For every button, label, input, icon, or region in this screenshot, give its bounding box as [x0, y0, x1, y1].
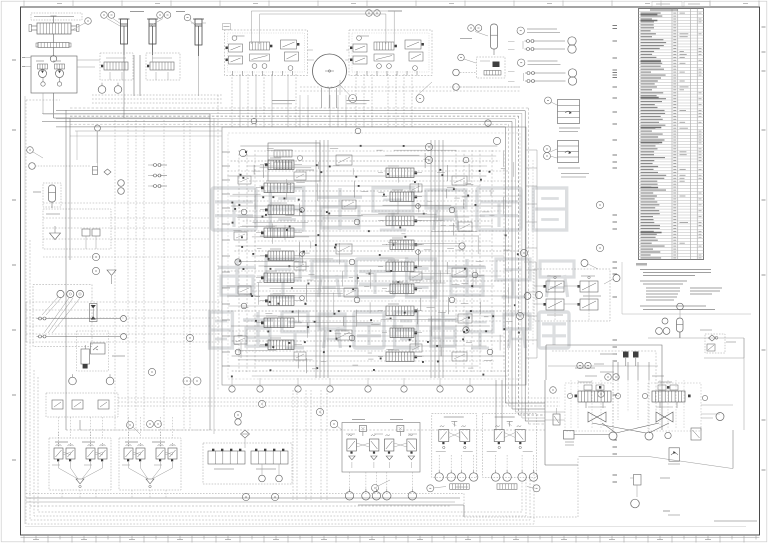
travel section boundary	[545, 366, 733, 469]
parts table header	[650, 9, 678, 11]
valve bank VB2	[349, 30, 432, 76]
ref balloons 2 3	[101, 12, 144, 27]
coupler group QC1	[517, 27, 576, 53]
pilot section sub-block	[268, 143, 320, 181]
gauges G4 G5	[453, 69, 520, 90]
wire cylinder drains	[124, 55, 199, 96]
pump solenoids	[600, 352, 639, 367]
drawing number text	[663, 511, 757, 521]
right margin zone letters	[762, 27, 766, 470]
valve V2 selector	[36, 34, 71, 56]
travel valve banks	[567, 382, 707, 408]
wire pump leaders	[42, 297, 80, 333]
ref balloons travel	[550, 374, 664, 398]
label box pilot unit	[31, 13, 82, 20]
valve bank VB1	[225, 30, 308, 76]
accumulator ACC1	[491, 24, 498, 55]
watermark row 3	[210, 312, 569, 348]
hose connectors	[427, 484, 540, 492]
reducing valve RV2	[544, 141, 590, 178]
wire pump outlet	[43, 60, 210, 118]
accumulator ACC3	[656, 303, 684, 338]
parts table row lines	[639, 12, 704, 257]
pedal valve cluster PD1	[432, 414, 477, 478]
wire bank links	[222, 11, 394, 108]
pilot valve cluster PC1	[49, 432, 111, 490]
wire coupler stubs	[508, 42, 515, 82]
tank symbol T1	[107, 270, 116, 284]
valve V6 shuttle	[90, 304, 98, 322]
travel crossover junctions	[592, 423, 671, 440]
filter F1	[93, 131, 112, 175]
ref balloons SV1	[536, 260, 621, 299]
auxiliary valve boxes	[234, 155, 472, 361]
pilot joystick PJ1	[342, 420, 420, 473]
drain filter unit	[630, 475, 670, 508]
ref balloon 1	[72, 18, 91, 30]
ref balloons 15 16	[183, 377, 201, 385]
valve bottom ports	[229, 378, 473, 392]
junction node A	[524, 262, 536, 300]
gauges G2 G3	[98, 83, 122, 94]
main control valve boundary	[222, 127, 526, 385]
bus left pilot lines	[26, 302, 222, 342]
ref balloons 4 5 6	[150, 12, 196, 27]
pump unit labels	[575, 368, 614, 372]
valve V1 hand control	[29, 16, 79, 34]
travel motors M1 M2	[588, 407, 673, 422]
bus tank return lines	[26, 498, 464, 517]
bus to pilot clusters	[118, 380, 560, 500]
wire bank to valve block	[232, 74, 412, 127]
pilot bus lines left	[43, 120, 210, 430]
spool column right	[378, 166, 422, 362]
gauge row G11	[345, 472, 416, 500]
coupler group QC2	[518, 59, 577, 85]
relief valve RV3	[553, 408, 560, 425]
coupler set QC3	[148, 164, 167, 188]
pilot boundary nest	[25, 96, 746, 527]
wire mid-left links	[70, 131, 222, 163]
valve west port stubs	[222, 152, 230, 366]
bus top-left to valve	[66, 95, 222, 430]
valve V4 holding	[146, 53, 180, 80]
pedal valve cluster PD2	[483, 414, 537, 478]
coupler set QC4	[37, 316, 127, 340]
ref balloons travel top	[577, 362, 604, 368]
ref balloons 9 10	[340, 82, 432, 103]
watermark row 2	[218, 259, 574, 297]
gauge G1	[50, 56, 56, 62]
boundary step lines	[26, 457, 578, 517]
solenoid manifold SM1	[203, 443, 292, 484]
pump unit boundary	[546, 345, 662, 430]
pilot valve cluster PC2	[119, 432, 181, 490]
ref balloons misc	[92, 143, 603, 500]
gauge rows G12 G13	[435, 455, 538, 481]
ref balloon 20	[372, 480, 391, 492]
wire right edge drop	[733, 338, 744, 468]
accumulator ACC2	[33, 183, 61, 208]
motor box M3	[564, 431, 610, 446]
filter F2	[235, 419, 250, 448]
wire block east stubs	[526, 150, 537, 358]
check filter circuit	[648, 330, 744, 358]
valve internal galleries	[239, 140, 504, 378]
watermark row 1	[212, 188, 567, 230]
parts table frame	[639, 9, 704, 260]
pilot filter unit	[43, 209, 111, 249]
revision blocks	[652, 2, 710, 7]
gauges G7 G8	[118, 180, 125, 195]
rotary joint J1	[313, 54, 347, 88]
bus top dashed pair	[300, 80, 520, 95]
ref balloon 14	[27, 147, 43, 158]
travel feed lines	[545, 362, 733, 432]
bus right vertical bundle	[42, 108, 545, 424]
pump group boundary	[33, 285, 92, 347]
notes text block	[622, 262, 751, 314]
port label column	[613, 26, 618, 483]
cylinder C3	[191, 19, 206, 56]
valve V3 holding	[100, 53, 133, 80]
scale mark	[455, 486, 468, 488]
valve V5 solenoid	[477, 57, 506, 78]
bus spine lines	[66, 55, 545, 434]
swing brake valve	[668, 448, 680, 464]
reducing valve RV1	[545, 97, 581, 132]
ref balloon 13	[458, 54, 476, 63]
ref balloons 17 18	[127, 421, 162, 435]
wire pump ports	[22, 58, 31, 67]
parts table entries	[641, 13, 702, 258]
valve trio V8	[46, 393, 118, 417]
left margin zone letters	[12, 60, 16, 460]
ref balloons 11 12	[460, 25, 488, 39]
valve V9 counterbalance	[691, 413, 724, 441]
top margin ruler ticks	[24, 1, 759, 8]
gauge G6	[29, 125, 101, 169]
gauges G9 G10	[69, 374, 114, 385]
pump circles P3 P4 P5	[57, 290, 84, 297]
valve cross passages	[224, 146, 521, 376]
valve V7 unload	[77, 331, 126, 371]
bottom margin ruler	[21, 535, 760, 543]
cylinder C1	[119, 19, 130, 55]
solenoid valve group SV1	[534, 269, 610, 321]
pilot cluster feed wires	[59, 417, 211, 498]
pump block P1 P2	[31, 56, 77, 93]
cylinder C2	[147, 19, 158, 55]
ref balloon 19	[330, 420, 342, 430]
spool column left	[256, 158, 302, 350]
valve ports and labels	[231, 118, 520, 377]
ref balloons 7 8	[366, 10, 402, 17]
